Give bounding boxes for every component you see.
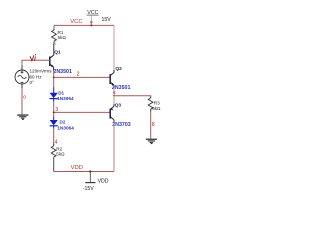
svg-text:D2: D2 bbox=[60, 120, 66, 125]
svg-text:VDD: VDD bbox=[98, 178, 109, 184]
svg-text:0°: 0° bbox=[30, 80, 35, 85]
transistor Q3 (PNP) bbox=[110, 103, 121, 120]
wire bottom rail VDD bbox=[54, 170, 114, 172]
ac source V1 bbox=[15, 70, 29, 84]
wire D1 to D2 / node 3 bbox=[53, 102, 55, 117]
svg-text:2: 2 bbox=[77, 71, 80, 77]
transistor Q1 bbox=[50, 49, 61, 67]
wire R1 to Q1 collector bbox=[53, 44, 55, 55]
wire top rail VCC bbox=[54, 24, 114, 26]
svg-text:5kΩ: 5kΩ bbox=[58, 35, 67, 40]
ground (right) bbox=[146, 139, 157, 145]
svg-text:4: 4 bbox=[55, 140, 58, 146]
svg-text:D1: D1 bbox=[58, 91, 64, 96]
ground (left) bbox=[17, 114, 28, 120]
svg-text:-15V: -15V bbox=[83, 186, 94, 192]
wire output node to R3 bbox=[114, 95, 151, 98]
wire Q3 collector to bottom rail bbox=[113, 120, 115, 123]
resistor R1 bbox=[52, 25, 67, 46]
svg-text:3: 3 bbox=[55, 107, 58, 113]
svg-text:1: 1 bbox=[55, 42, 57, 46]
diode D1 bbox=[50, 93, 58, 102]
svg-text:0: 0 bbox=[23, 95, 26, 101]
svg-text:2N3501: 2N3501 bbox=[53, 69, 72, 75]
svg-text:2N3703: 2N3703 bbox=[112, 122, 131, 128]
svg-text:6: 6 bbox=[113, 90, 116, 95]
transistor Q2 bbox=[110, 66, 122, 86]
wire Q1 emitter down to node 2 bbox=[53, 67, 55, 70]
svg-text:60 Hz: 60 Hz bbox=[30, 74, 43, 79]
junction at VCC stem and rail bbox=[90, 24, 92, 26]
junction at VDD stem bbox=[89, 170, 91, 172]
node 2 wire to Q2 base bbox=[54, 76, 110, 78]
diode D2 bbox=[50, 120, 58, 129]
wire R2 to bottom rail bbox=[53, 157, 55, 171]
source value labels bbox=[30, 69, 53, 85]
svg-text:8: 8 bbox=[152, 122, 155, 128]
power symbol VDD bbox=[83, 171, 109, 191]
wire Q2 emitter to output node bbox=[113, 85, 115, 87]
wire source to ground bbox=[21, 84, 23, 88]
junction output node bbox=[113, 95, 115, 97]
svg-text:1N3064: 1N3064 bbox=[57, 96, 74, 101]
junction node 2 bbox=[53, 76, 55, 78]
junction node 3 bbox=[53, 111, 55, 113]
svg-text:Q1: Q1 bbox=[54, 49, 61, 55]
svg-text:1N3064: 1N3064 bbox=[57, 125, 74, 130]
wire output node down to Q3 emitter bbox=[113, 96, 115, 104]
node 3 wire to Q3 base bbox=[54, 111, 110, 113]
svg-text:VCC: VCC bbox=[70, 19, 82, 25]
svg-text:120mVrms: 120mVrms bbox=[30, 69, 53, 74]
resistor R2 bbox=[51, 146, 65, 157]
wire R3 to ground bbox=[150, 109, 152, 111]
net label vi bbox=[30, 55, 35, 61]
wire D2 to R2 bbox=[53, 129, 55, 144]
power symbol VCC bbox=[87, 10, 112, 25]
svg-text:Q2: Q2 bbox=[115, 66, 122, 72]
svg-text:5kΩ: 5kΩ bbox=[152, 106, 161, 111]
wire Q2 collector riser bbox=[113, 25, 115, 70]
svg-text:5kΩ: 5kΩ bbox=[56, 151, 65, 156]
svg-text:15V: 15V bbox=[102, 17, 112, 23]
wire source to Q1 base bbox=[21, 66, 23, 71]
svg-text:VDD: VDD bbox=[71, 165, 83, 171]
svg-text:Q3: Q3 bbox=[115, 103, 122, 109]
resistor R3 bbox=[148, 98, 161, 111]
wire node2 down to D1 bbox=[53, 77, 55, 87]
